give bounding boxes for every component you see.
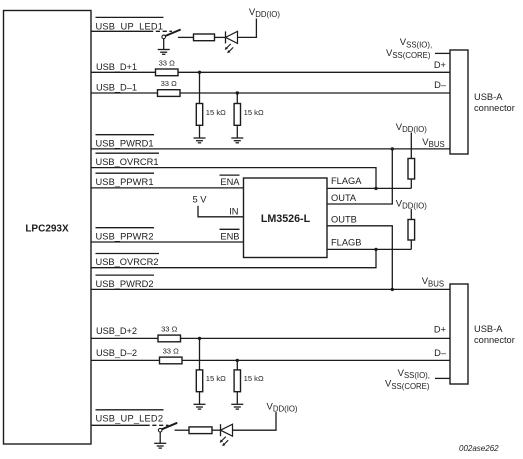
switch S2 (open, to ground): [158, 423, 177, 432]
node junction OUTA / VBUS1: [391, 147, 394, 150]
node junction D-1 pulldown: [236, 91, 239, 94]
wire USB_PPWR2 to ENB: [91, 241, 244, 243]
resistor R3 33 ohm (D-1): [158, 79, 181, 96]
svg-text:LM3526-L: LM3526-L: [261, 213, 311, 225]
wire OUTA to VBUS J1: [327, 149, 392, 204]
wire VSS to J2: [435, 377, 450, 379]
wire D+1 to connector J1 D+: [178, 71, 450, 73]
svg-text:D+: D+: [434, 325, 446, 335]
op-amp U1 LM3526-L USB power switch: [244, 178, 328, 258]
wire USB_PWRD2 to VBUS of J2: [91, 288, 450, 290]
pin label USB_OVRCR2 with overbar: [96, 254, 160, 268]
svg-text:USB_OVRCR1: USB_OVRCR1: [96, 157, 159, 167]
wire D-1 to connector J1 D-: [180, 92, 450, 94]
USB-A connector J1 (top): [450, 50, 515, 154]
wire resistor R1 to LED1: [215, 36, 226, 38]
resistor R8 15 kohm pulldown: [196, 370, 226, 392]
pin label USB_PWRD1 with overbar: [96, 135, 155, 149]
resistor R5 15 kohm pulldown: [234, 104, 264, 126]
wire D-2 to resistor R9: [236, 360, 238, 370]
pin label USB_PPWR2 with overbar: [96, 228, 155, 242]
svg-text:FLAGA: FLAGA: [331, 176, 362, 186]
svg-text:15 kΩ: 15 kΩ: [244, 108, 264, 117]
svg-text:33 Ω: 33 Ω: [159, 58, 176, 67]
pin label USB_UP_LED1 with overbar: [96, 17, 164, 31]
wire USB_D-2 from LPC293X to resistor R7: [91, 359, 160, 361]
svg-text:5 V: 5 V: [193, 194, 208, 204]
power VDD(IO) (bottom, LED2): [267, 402, 298, 414]
LED LED1 (USB up indicator 1): [225, 31, 238, 53]
svg-text:ENB: ENB: [220, 231, 239, 241]
wire resistor R8 to ground: [199, 392, 201, 405]
svg-text:LPC293X: LPC293X: [25, 224, 69, 235]
resistor RA pullup FLAGA: [408, 159, 415, 180]
svg-text:USB_D+1: USB_D+1: [96, 62, 137, 72]
svg-text:USB_D–1: USB_D–1: [96, 83, 137, 93]
wire LED1 to VDD(IO): [238, 19, 257, 38]
wire USB_D+2 from LPC293X to resistor R6: [91, 337, 158, 339]
power VSS(IO)/VSS(CORE) (J1): [386, 37, 432, 60]
wire resistor R9 to ground: [236, 392, 238, 405]
svg-text:USB_OVRCR2: USB_OVRCR2: [96, 257, 159, 267]
node junction D-2 pulldown: [236, 359, 239, 362]
svg-text:OUTB: OUTB: [331, 214, 357, 224]
pin label ENA with overbar: [220, 175, 241, 187]
svg-text:OUTA: OUTA: [331, 193, 357, 203]
switch S1 (open, to ground): [162, 30, 181, 39]
svg-text:USB_PWRD1: USB_PWRD1: [96, 139, 154, 149]
node junction FLAGA / OVRCR1: [374, 187, 377, 190]
svg-text:USB-A: USB-A: [474, 92, 503, 102]
wire 5 V to IN: [198, 206, 244, 217]
wire FLAGB to pullup RB: [327, 248, 411, 250]
svg-text:ENA: ENA: [220, 177, 240, 187]
svg-text:FLAGB: FLAGB: [331, 238, 361, 248]
wire dashed to switch S2: [146, 424, 169, 426]
IC LPC293X microcontroller: [4, 11, 92, 445]
wire switch S2 to resistor R10: [175, 429, 190, 431]
svg-text:USB_PPWR2: USB_PPWR2: [96, 231, 154, 241]
wire USB_D-1 from LPC293X to resistor R3: [91, 92, 158, 94]
LED LED2 (USB up indicator 2): [220, 424, 233, 446]
resistor R10 (LED series): [189, 427, 212, 434]
wire resistor RB to FLAGB: [410, 240, 412, 249]
node junction D+2 pulldown: [198, 337, 201, 340]
svg-text:D–: D–: [434, 348, 447, 358]
pin label USB_UP_LED2 with overbar: [96, 410, 164, 424]
resistor RB pullup FLAGB: [408, 220, 415, 241]
resistor R6 33 ohm (D+2): [158, 325, 181, 342]
wire D+2 to resistor R8: [199, 338, 201, 370]
wire dashed to switch S1: [149, 30, 172, 32]
svg-text:D+: D+: [434, 60, 446, 70]
ground (switch S2): [154, 443, 166, 448]
wire LED2 to VDD(IO): [233, 412, 277, 430]
power VDD(IO) (top, LED1): [249, 7, 280, 19]
svg-text:connector: connector: [474, 335, 515, 345]
resistor R9 15 kohm pulldown: [234, 370, 264, 392]
wire USB_D+1 from LPC293X to resistor R2: [91, 71, 156, 73]
ground (switch S1): [158, 50, 170, 55]
power VSS(IO)/VSS(CORE) (J2): [385, 368, 430, 391]
wire resistor R4 to ground: [199, 125, 201, 138]
wire D+2 to connector J2 D+: [181, 337, 451, 339]
wire switch S1 to resistor R1: [178, 36, 194, 38]
wire D-1 to resistor R5: [236, 93, 238, 104]
wire D+1 to resistor R4: [199, 72, 201, 103]
svg-text:D–: D–: [434, 80, 447, 90]
resistor R7 33 ohm (D-2): [160, 347, 183, 364]
svg-text:USB_PWRD2: USB_PWRD2: [96, 279, 154, 289]
svg-text:USB_PPWR1: USB_PPWR1: [96, 177, 154, 187]
wire switch S2 to ground: [159, 432, 161, 443]
pin label USB_OVRCR1 with overbar: [96, 153, 160, 167]
pin label ENB with overbar: [220, 229, 240, 241]
resistor R2 33 ohm (D+1): [156, 58, 179, 75]
wire USB_UP_LED1 from LPC293X: [91, 30, 149, 32]
wire FLAGA to pullup RA: [327, 187, 411, 189]
svg-text:USB_UP_LED1: USB_UP_LED1: [96, 21, 164, 31]
wire VDD(IO) to resistor RA: [410, 133, 412, 159]
wire USB_UP_LED2 from LPC293X: [91, 424, 146, 426]
svg-text:USB_UP_LED2: USB_UP_LED2: [96, 414, 164, 424]
svg-text:33 Ω: 33 Ω: [163, 347, 180, 356]
ground (R5): [231, 138, 243, 143]
svg-text:33 Ω: 33 Ω: [161, 325, 178, 334]
node junction FLAGB / OVRCR2: [374, 248, 377, 251]
svg-text:USB_D–2: USB_D–2: [96, 348, 137, 358]
pin label USB_PPWR1 with overbar: [96, 173, 155, 187]
wire VSS to J1: [435, 52, 450, 54]
USB-A connector J2 (bottom): [450, 284, 515, 384]
svg-text:15 kΩ: 15 kΩ: [206, 374, 226, 383]
resistor R4 15 kohm pulldown: [196, 104, 226, 126]
svg-text:002ase262: 002ase262: [459, 444, 499, 453]
svg-text:15 kΩ: 15 kΩ: [244, 374, 264, 383]
pin label USB_PWRD2 with overbar: [96, 275, 155, 289]
node junction OUTB / VBUS2: [391, 288, 394, 291]
node junction D+1 pulldown: [198, 71, 201, 74]
wire USB_OVRCR2 to FLAGB: [91, 249, 376, 267]
resistor R1 (LED series): [194, 34, 215, 41]
svg-text:15 kΩ: 15 kΩ: [206, 108, 226, 117]
svg-text:33 Ω: 33 Ω: [161, 79, 178, 88]
wire D-2 to connector J2 D-: [182, 359, 450, 361]
svg-text:USB_D+2: USB_D+2: [96, 326, 137, 336]
wire resistor R10 to LED2: [212, 429, 221, 431]
ground (R8): [194, 404, 206, 409]
ground (R4): [194, 138, 206, 143]
svg-text:USB-A: USB-A: [474, 324, 503, 334]
wire USB_OVRCR1 to FLAGA: [91, 168, 376, 189]
wire switch S1 to ground: [163, 39, 165, 50]
wire resistor R5 to ground: [236, 125, 238, 138]
wire USB_PWRD1 to VBUS of J1: [91, 148, 450, 150]
svg-text:connector: connector: [474, 103, 515, 113]
svg-text:IN: IN: [229, 206, 238, 216]
wire resistor RA to FLAGA: [410, 179, 412, 188]
wire VDD(IO) to resistor RB: [410, 209, 412, 220]
wire OUTB to VBUS J2: [327, 226, 392, 290]
wire USB_PPWR1 to ENA: [91, 187, 244, 189]
ground (R9): [231, 404, 243, 409]
